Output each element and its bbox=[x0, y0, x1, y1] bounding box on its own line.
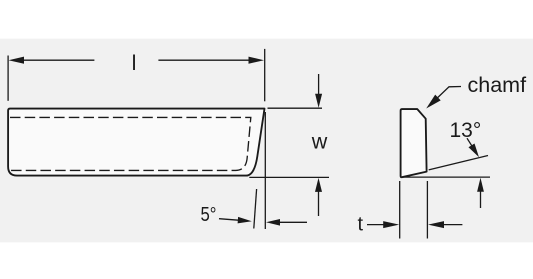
svg-text:l: l bbox=[132, 51, 137, 75]
5 deg: leader arrowhead (right) bbox=[238, 217, 252, 224]
chamf arrowhead bbox=[426, 95, 441, 109]
13 deg: up arrowhead bbox=[477, 178, 484, 192]
svg-text:13°: 13° bbox=[450, 119, 482, 142]
13 deg: leader line bbox=[467, 138, 474, 148]
svg-text:5°: 5° bbox=[201, 203, 217, 226]
dimension l: left segment line bbox=[20, 59, 94, 61]
5 deg: left-pointing arrowhead bbox=[266, 219, 280, 226]
chamf leader line bbox=[431, 87, 461, 105]
dimension l: left extension line bbox=[7, 56, 9, 101]
gray drawing panel bbox=[0, 39, 533, 243]
5 deg: leader line bbox=[219, 219, 240, 221]
dimension w: bottom arrowhead (up) bbox=[315, 178, 322, 192]
dimension l: right segment line bbox=[158, 59, 252, 61]
dimension t: left-pointing arrowhead bbox=[428, 221, 444, 228]
dimension t: right tail line bbox=[442, 224, 462, 226]
dimension t: left leader line bbox=[367, 224, 385, 226]
dimension w: bottom arrow shaft bbox=[318, 189, 320, 216]
dimension t: left extension line bbox=[399, 181, 401, 239]
blade front view hidden back edge (dashed) bbox=[10, 117, 251, 170]
5 deg: right horizontal tail bbox=[278, 221, 307, 223]
dimension t: right extension line bbox=[426, 181, 428, 239]
blade front view outline bbox=[8, 109, 264, 176]
dimension w: top extension line bbox=[268, 107, 323, 109]
13 deg: leader arrowhead (down-right) bbox=[469, 144, 480, 158]
svg-text:t: t bbox=[358, 214, 364, 236]
dimension l: left arrowhead bbox=[9, 57, 25, 64]
5 deg: vertical reference line bbox=[264, 112, 266, 229]
5 deg: slanted reference line bbox=[254, 189, 257, 229]
dimension l: right extension line bbox=[264, 49, 266, 101]
svg-text:w: w bbox=[311, 130, 328, 154]
blade end view outline bbox=[401, 109, 427, 177]
dimension l: right arrowhead bbox=[249, 57, 265, 64]
dimension t: right-pointing arrowhead bbox=[383, 221, 399, 228]
dimension w: top arrowhead (down) bbox=[315, 94, 322, 108]
svg-text:chamf: chamf bbox=[468, 73, 527, 97]
13 deg: horizontal reference line bbox=[402, 176, 490, 178]
dimension w: bottom extension line bbox=[249, 176, 329, 178]
dimension w: top arrow shaft bbox=[318, 74, 320, 97]
13 deg: angled reference line bbox=[429, 156, 488, 170]
13 deg: up arrow shaft bbox=[480, 190, 482, 208]
